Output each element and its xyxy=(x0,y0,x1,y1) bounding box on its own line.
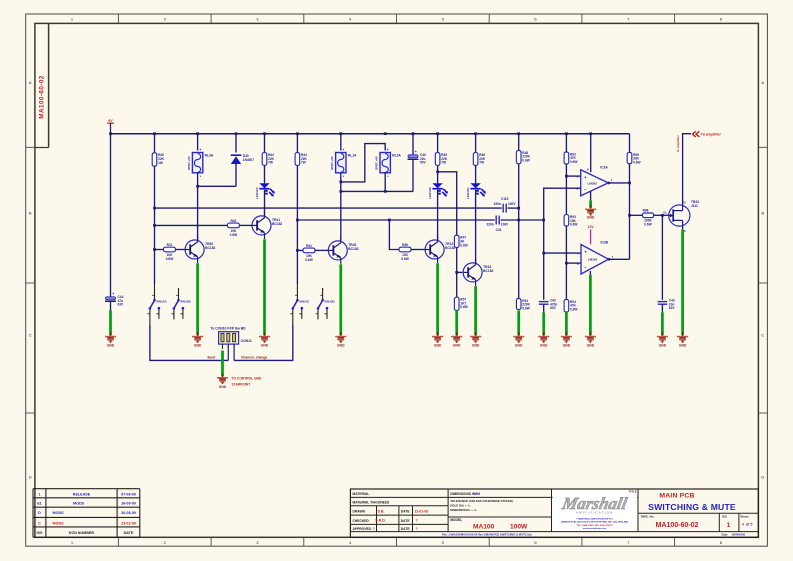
svg-text:22-01-08: 22-01-08 xyxy=(415,509,429,513)
svg-text:100V: 100V xyxy=(501,223,509,227)
svg-text:MAIN PCB: MAIN PCB xyxy=(659,493,694,500)
wire IC3A pin4 to ground xyxy=(590,191,592,200)
svg-text:*: * xyxy=(228,347,229,349)
wire C40 to mute node xyxy=(412,159,414,191)
wire SW10C to Channel_change bus xyxy=(234,325,293,360)
wire mute/ground net highlight xyxy=(589,275,592,335)
ground xyxy=(589,332,591,336)
svg-text:100W: 100W xyxy=(510,524,528,531)
wire R47 down xyxy=(456,248,458,298)
svg-text:20-08-09: 20-08-09 xyxy=(121,511,136,515)
resistor R46 22K xyxy=(473,153,478,166)
wire relay RL3A to node xyxy=(197,172,199,186)
svg-text:APPROVED: APPROVED xyxy=(353,527,372,531)
svg-text:BC182: BC182 xyxy=(348,247,358,251)
junction xyxy=(589,132,592,135)
svg-text:GND: GND xyxy=(261,344,269,348)
diode D40 1N4007 xyxy=(231,154,242,156)
wire bus A xyxy=(155,207,502,209)
wire mute node horizontal xyxy=(341,190,413,192)
svg-text:S.R.D.: S.R.D. xyxy=(375,519,386,523)
capacitor C42 470n xyxy=(539,301,549,303)
svg-text:C: C xyxy=(38,521,41,525)
svg-text:?: ? xyxy=(416,527,418,531)
wire IC3A inverting input chain xyxy=(544,188,581,300)
svg-text:www.marshallamps.com: www.marshallamps.com xyxy=(583,528,606,530)
svg-text:ECN NUMBER: ECN NUMBER xyxy=(69,531,94,535)
wire relay/diode node xyxy=(198,185,236,187)
wire R96 to TR43 gate xyxy=(654,214,669,216)
wire RL1A to RL2A series link xyxy=(341,144,385,182)
svg-text:1: 1 xyxy=(38,493,40,497)
ground xyxy=(475,332,477,336)
svg-text:SW10B: SW10B xyxy=(180,300,191,304)
title block xyxy=(350,489,758,537)
svg-text:LM393: LM393 xyxy=(588,258,598,262)
svg-text:1: 1 xyxy=(727,522,731,529)
svg-text:0.6W: 0.6W xyxy=(522,307,529,311)
relay coil RL3A xyxy=(192,153,202,173)
drawing number strip box xyxy=(48,23,50,147)
svg-text:File: J:\MA100\MA100-60-02 Rev: File: J:\MA100\MA100-60-02 Rev 1\MAIN PC… xyxy=(442,532,532,536)
wire to R11 xyxy=(155,249,164,251)
svg-text:ISS: ISS xyxy=(722,514,727,518)
svg-text:DPDT +9V: DPDT +9V xyxy=(375,156,379,170)
resistor R92 47K xyxy=(564,152,569,164)
wire IC3B pin to ground xyxy=(589,271,591,275)
wire divider chain xyxy=(565,164,567,215)
wire mute/ground net highlight xyxy=(681,230,684,335)
svg-text:Sheet: Sheet xyxy=(740,514,748,518)
svg-text:C: C xyxy=(29,333,32,338)
svg-text:B: B xyxy=(29,211,32,216)
svg-text:1W: 1W xyxy=(158,161,163,165)
svg-text:BC182: BC182 xyxy=(205,246,215,250)
ground xyxy=(565,332,567,336)
wire rail to C44 xyxy=(110,134,112,297)
wire TR41 base line xyxy=(155,224,228,226)
junction xyxy=(235,132,238,135)
svg-text:IC3A: IC3A xyxy=(600,166,608,170)
wire IC3A output xyxy=(608,182,629,184)
svg-text:16/09/2009: 16/09/2009 xyxy=(732,532,746,536)
svg-text:0.6W: 0.6W xyxy=(570,160,577,164)
capacitor C44 47u xyxy=(106,297,116,300)
resistor R94 47K xyxy=(564,300,569,313)
junction xyxy=(517,132,520,135)
junction bus A tap xyxy=(153,207,156,210)
junction xyxy=(109,132,112,135)
svg-text:RELEASE: RELEASE xyxy=(73,493,91,497)
ground xyxy=(264,332,266,336)
svg-text:+: + xyxy=(415,150,417,154)
svg-text:E1: E1 xyxy=(37,502,42,506)
wire mute/ground net highlight xyxy=(565,312,568,335)
capacitor C43 10n xyxy=(658,301,668,303)
svg-text:D: D xyxy=(684,200,686,204)
svg-text:MM: MM xyxy=(475,492,481,496)
resistor R44 22K xyxy=(295,153,300,166)
capacitor C40 22u xyxy=(408,155,418,158)
svg-text:R96: R96 xyxy=(643,208,649,212)
svg-text:DRAWN: DRAWN xyxy=(353,510,366,514)
ground xyxy=(661,332,663,336)
svg-text:D: D xyxy=(761,475,764,480)
svg-text:+: + xyxy=(199,148,201,152)
resistor R41 10K xyxy=(303,248,315,253)
wire mute/ground net highlight xyxy=(436,263,439,335)
Marshall logo xyxy=(553,490,637,531)
junction xyxy=(263,132,266,135)
junction xyxy=(542,219,545,222)
svg-text:TOLERANCE (UNLESS OTHERWISE ST: TOLERANCE (UNLESS OTHERWISE STATED) xyxy=(450,499,513,503)
junction xyxy=(565,262,568,265)
svg-text:TEL: 01908 375411 FAX: 01908: TEL: 01908 375411 FAX: 01908 376118 xyxy=(576,524,613,527)
svg-text:DPDT +9V: DPDT +9V xyxy=(187,156,191,170)
wire R48 column down xyxy=(518,164,520,299)
wire bus B xyxy=(297,219,494,221)
resistor R57 1K7 xyxy=(454,297,459,310)
wire mute/ground net highlight xyxy=(455,310,458,335)
junction xyxy=(339,190,342,193)
capacitor C41 220n xyxy=(495,216,497,225)
wire IC3B output xyxy=(609,258,630,260)
svg-text:0.6W: 0.6W xyxy=(644,222,651,226)
svg-text:GND: GND xyxy=(337,344,345,348)
junction TR41 base line tap xyxy=(153,224,156,227)
wire R36 to TR13 base xyxy=(411,249,425,251)
resistor R40 22K xyxy=(152,153,157,166)
wire 12V to IC3B V+ xyxy=(590,229,592,244)
junction xyxy=(412,132,415,135)
transistor TR40 xyxy=(185,240,204,259)
svg-text:Boot: Boot xyxy=(208,356,216,360)
svg-text:R11: R11 xyxy=(167,243,173,247)
ground xyxy=(590,205,592,209)
svg-text:GND: GND xyxy=(219,385,227,389)
svg-text:07-09-09: 07-09-09 xyxy=(121,493,136,497)
svg-text:0.6W: 0.6W xyxy=(633,160,640,164)
transistor TR41 xyxy=(252,216,271,235)
ground xyxy=(543,332,545,336)
wire R43 to LED10A xyxy=(264,165,266,183)
wire gate node to C43 xyxy=(661,215,663,299)
wire +9V top rail xyxy=(111,133,630,135)
junction xyxy=(196,132,199,135)
ground xyxy=(682,332,684,336)
op-amp IC3B xyxy=(581,245,609,275)
svg-text:0.6W: 0.6W xyxy=(166,257,173,261)
ground xyxy=(518,332,520,336)
junction xyxy=(661,214,664,217)
svg-text:?: ? xyxy=(373,527,375,531)
wire rail to IC3A V+ xyxy=(590,134,592,173)
transistor TR42 xyxy=(328,241,347,260)
svg-text:7W: 7W xyxy=(441,161,446,165)
svg-text:100V: 100V xyxy=(508,202,516,206)
capacitor C110 220n xyxy=(502,204,504,213)
svg-text:0.6W: 0.6W xyxy=(460,305,467,309)
op-amp IC3A xyxy=(581,170,609,196)
svg-text:+: + xyxy=(387,148,389,152)
wire mute/ground net highlight xyxy=(589,200,592,208)
svg-text:SWITCHING & MUTE: SWITCHING & MUTE xyxy=(648,502,736,512)
svg-text:MATERIAL: MATERIAL xyxy=(353,492,370,496)
svg-text:LED10C: LED10C xyxy=(466,187,470,199)
svg-text:CON11: CON11 xyxy=(241,339,252,343)
svg-text:C: C xyxy=(761,333,764,338)
svg-text:AMPLIFICATION: AMPLIFICATION xyxy=(576,511,614,515)
junction bus B xyxy=(517,219,520,222)
svg-text:BC182: BC182 xyxy=(272,222,282,226)
wire to R96 xyxy=(630,214,643,216)
wire R11 to TR40 base xyxy=(176,249,186,251)
junction xyxy=(474,132,477,135)
svg-text:0.6W: 0.6W xyxy=(570,308,577,312)
resistor R47 3K xyxy=(454,235,459,247)
svg-text:*: * xyxy=(222,347,223,349)
ground xyxy=(222,374,224,378)
svg-text:7W: 7W xyxy=(301,161,306,165)
LED LED10B xyxy=(432,183,442,188)
wire LED10A to TR41 collector xyxy=(264,190,266,216)
svg-text:GND: GND xyxy=(563,344,571,348)
svg-text:63V: 63V xyxy=(118,303,125,307)
svg-text:GND: GND xyxy=(587,344,595,348)
frame row ticks and letters xyxy=(26,146,35,148)
wire to IC3B - input xyxy=(566,262,581,264)
wire R44 column down xyxy=(296,165,298,284)
svg-text:HOLE DIA + -/+: HOLE DIA + -/+ xyxy=(450,504,471,508)
svg-text:+: + xyxy=(112,292,114,296)
svg-text:7W: 7W xyxy=(268,161,273,165)
wire to IC3A + input xyxy=(566,175,580,177)
wire mute/ground net highlight xyxy=(474,286,477,335)
junction xyxy=(436,170,439,173)
resistor R91 220K xyxy=(516,299,521,310)
resistor R42 10K xyxy=(227,223,239,228)
wire mute/ground net highlight xyxy=(196,263,199,335)
junction bus B xyxy=(296,219,299,222)
svg-text:GND: GND xyxy=(587,216,595,220)
svg-text:DIMENSIONAL + +/-: DIMENSIONAL + +/- xyxy=(450,508,477,512)
junction xyxy=(339,181,342,184)
svg-text:MODS: MODS xyxy=(53,511,65,515)
svg-text:GND: GND xyxy=(472,344,480,348)
svg-text:MODS: MODS xyxy=(73,502,85,506)
wire mute/ground net highlight xyxy=(263,239,266,335)
svg-text:63V: 63V xyxy=(550,306,557,310)
svg-text:® MARSHALL AMPLIFICATION PLC: ® MARSHALL AMPLIFICATION PLC xyxy=(576,517,613,520)
svg-text:MA100: MA100 xyxy=(473,524,495,531)
relay coil RL1A xyxy=(336,153,346,173)
svg-text:?: ? xyxy=(416,519,418,523)
svg-text:LM393: LM393 xyxy=(588,181,598,185)
svg-text:A: A xyxy=(761,80,764,85)
junction xyxy=(296,132,299,135)
svg-text:RL3A: RL3A xyxy=(205,154,214,158)
svg-text:9V: 9V xyxy=(108,119,113,123)
svg-text:MA100-60-02: MA100-60-02 xyxy=(39,75,46,119)
svg-text:+: + xyxy=(342,148,344,152)
ground xyxy=(456,332,458,336)
svg-text:50V: 50V xyxy=(420,161,427,165)
svg-text:IC3B: IC3B xyxy=(601,240,609,244)
svg-text:CHECKED: CHECKED xyxy=(353,519,370,523)
relay coil RL2A xyxy=(380,153,390,173)
ground xyxy=(340,332,342,336)
svg-text:16-09-09: 16-09-09 xyxy=(121,502,136,506)
svg-text:LED10B: LED10B xyxy=(428,187,432,199)
frame column ticks and numbers xyxy=(117,14,119,23)
junction base feed TR40 xyxy=(153,248,156,251)
junction xyxy=(565,175,568,178)
resistor R11 10K xyxy=(164,247,176,252)
svg-text:MODEL: MODEL xyxy=(450,518,462,522)
svg-text:4: 4 xyxy=(742,523,744,527)
svg-text:ISS: ISS xyxy=(36,531,42,535)
svg-text:RL1A: RL1A xyxy=(348,154,357,158)
svg-text:D: D xyxy=(29,475,32,480)
svg-text:R42: R42 xyxy=(230,219,236,223)
svg-text:TITLE: TITLE xyxy=(629,490,637,494)
svg-text:Date: Date xyxy=(722,532,728,536)
svg-text:63V: 63V xyxy=(669,306,676,310)
switch SW10D xyxy=(322,288,324,299)
svg-text:GND: GND xyxy=(434,344,442,348)
wire mute/ground net highlight xyxy=(661,313,664,336)
wire RL1A bottom to TR42 collector xyxy=(340,173,342,240)
svg-text:0.6W: 0.6W xyxy=(230,233,237,237)
wire LED10C to TR44 collector xyxy=(475,190,477,263)
wire to TR44 base xyxy=(457,271,463,273)
svg-text:GND: GND xyxy=(515,344,523,348)
svg-text:220n: 220n xyxy=(487,223,494,227)
svg-text:SW10A: SW10A xyxy=(156,300,167,304)
svg-text:B: B xyxy=(761,211,764,216)
junction bus B to TR13 base feed xyxy=(388,219,391,222)
svg-text:DATE: DATE xyxy=(401,510,411,514)
transistor TR13 xyxy=(425,240,444,259)
wire TR43 source to mute ground xyxy=(682,226,684,230)
LED LED10C xyxy=(470,183,480,188)
svg-text:GND: GND xyxy=(107,344,115,348)
svg-text:DPDT +9V: DPDT +9V xyxy=(330,156,334,170)
resistor R43 22K xyxy=(262,153,267,166)
svg-text:STARPOINT: STARPOINT xyxy=(232,382,251,386)
transistor TR43 mute FET xyxy=(669,205,690,226)
switch SW10A xyxy=(154,284,156,299)
svg-text:0.6W: 0.6W xyxy=(460,243,467,247)
wire SW10A to Boot bus xyxy=(150,325,228,360)
svg-text:0.6W: 0.6W xyxy=(522,159,529,163)
wire D40 anode down xyxy=(235,164,237,186)
junction bus A end xyxy=(517,207,520,210)
resistor R36 10K xyxy=(399,247,411,252)
transistor TR44 xyxy=(463,263,482,282)
svg-text:To CON10 FXP Sw BD: To CON10 FXP Sw BD xyxy=(210,326,246,330)
wire to R36 xyxy=(389,220,399,250)
svg-text:S: S xyxy=(684,229,686,233)
junction xyxy=(196,185,199,188)
svg-text:R41: R41 xyxy=(306,244,312,248)
resistor R93 15K xyxy=(564,215,569,226)
svg-text:MATERIAL THICKNESS: MATERIAL THICKNESS xyxy=(353,500,390,504)
svg-text:DWG. No.: DWG. No. xyxy=(641,514,655,518)
svg-text:GND: GND xyxy=(659,344,667,348)
svg-text:LED10A: LED10A xyxy=(255,187,259,199)
ground xyxy=(437,332,439,336)
svg-text:DIMENSIONS IN: DIMENSIONS IN xyxy=(450,492,476,496)
wire to IC3B + input xyxy=(544,252,581,254)
svg-text:GND: GND xyxy=(194,344,202,348)
svg-text:To amplifier: To amplifier xyxy=(676,134,680,152)
wire R40 to SW10A xyxy=(154,166,156,284)
resistor R45 22K xyxy=(435,153,440,166)
wire mute/ground net highlight xyxy=(517,311,520,336)
resistor R95 30K xyxy=(627,152,632,163)
junction xyxy=(628,182,631,185)
svg-text:DENBIGH ROAD, BLETCHLEY, MILTO: DENBIGH ROAD, BLETCHLEY, MILTON KEYNES, … xyxy=(561,521,628,524)
resistor R48 220K xyxy=(516,151,521,164)
junction xyxy=(455,271,458,274)
junction xyxy=(384,132,387,135)
svg-text:*: * xyxy=(234,347,235,349)
switch SW10B xyxy=(178,288,180,299)
wire RL2A bottom to mute node xyxy=(384,172,386,191)
svg-text:Channel_change: Channel_change xyxy=(241,356,268,360)
svg-text:0.6W: 0.6W xyxy=(570,223,577,227)
resistor R96 200K xyxy=(642,213,653,218)
svg-text:D: D xyxy=(38,511,41,515)
svg-text:MA100-60-02: MA100-60-02 xyxy=(656,522,699,529)
junction xyxy=(628,214,631,217)
wire CON11 pin stubs xyxy=(222,344,224,349)
junction base feed TR42 xyxy=(296,249,299,252)
svg-text:23-02-09: 23-02-09 xyxy=(121,521,136,525)
svg-text:S.B.: S.B. xyxy=(378,509,385,513)
svg-text:SW10C: SW10C xyxy=(299,300,310,304)
junction xyxy=(436,132,439,135)
wire branch to R47 column xyxy=(438,172,457,236)
wire to TR40 collector xyxy=(197,186,199,240)
connector CON11 xyxy=(219,332,239,344)
wire LED10B to TR13 collector xyxy=(437,190,439,240)
revision table xyxy=(33,488,140,490)
svg-text:220n: 220n xyxy=(494,202,501,206)
svg-text:1N4007: 1N4007 xyxy=(243,158,254,162)
junction xyxy=(339,132,342,135)
svg-text:GND: GND xyxy=(453,344,461,348)
wire rail to D40 xyxy=(235,134,237,153)
svg-text:GND: GND xyxy=(540,344,548,348)
svg-text:DATE: DATE xyxy=(401,519,411,523)
junction xyxy=(153,132,156,135)
ground xyxy=(197,332,199,336)
junction xyxy=(384,190,387,193)
wire mute/ground net highlight xyxy=(109,311,112,336)
svg-text:J111: J111 xyxy=(691,204,698,208)
svg-text:7W: 7W xyxy=(479,161,484,165)
wire mute/ground net highlight xyxy=(221,351,224,377)
switch SW10C xyxy=(296,284,298,299)
svg-text:12V: 12V xyxy=(588,225,595,229)
svg-text:MODS: MODS xyxy=(53,521,65,525)
wire to R41 xyxy=(297,249,303,251)
svg-text:0.6W: 0.6W xyxy=(401,257,408,261)
junction xyxy=(542,252,545,255)
svg-text:GND: GND xyxy=(679,344,687,348)
